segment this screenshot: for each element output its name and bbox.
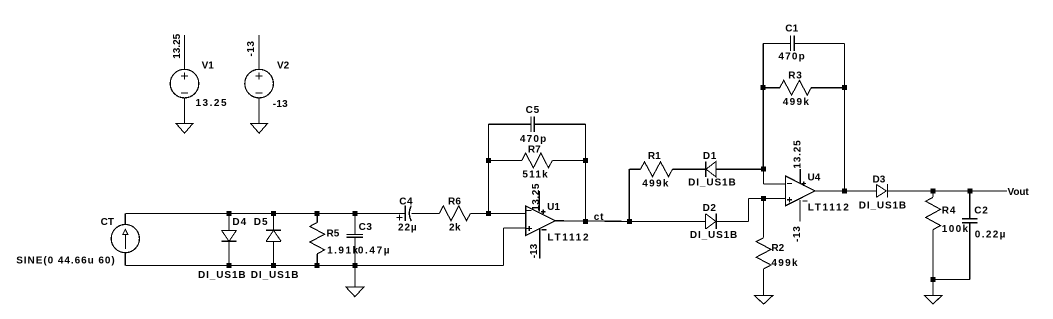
label R2	[771, 243, 784, 254]
wire ground stub right	[932, 280, 934, 296]
wire U4 inv from D1	[763, 169, 785, 184]
junction R7 left	[486, 158, 491, 163]
junction R7 right	[583, 158, 588, 163]
svg-text:R5: R5	[327, 229, 340, 240]
svg-text:-13: -13	[246, 41, 257, 57]
wire feedback left leg U4	[762, 43, 764, 169]
wire CT bottom stub	[124, 253, 126, 266]
resistor R2	[756, 199, 771, 296]
junction D4 bottom	[227, 263, 232, 268]
resistor R1	[641, 162, 706, 177]
diode D3	[876, 184, 1007, 197]
diode D5	[266, 213, 281, 265]
junction R5 top	[315, 211, 320, 216]
label D3	[873, 175, 886, 186]
value 13.25 of V1	[196, 98, 229, 109]
capacitor C3	[347, 213, 363, 265]
svg-text:R1: R1	[648, 151, 661, 162]
wire C5 top left	[488, 123, 531, 125]
svg-text:SINE(0 44.66u 60): SINE(0 44.66u 60)	[16, 255, 116, 266]
voltage source V1	[170, 35, 199, 124]
label R4	[942, 205, 956, 216]
svg-text:499k: 499k	[771, 258, 798, 269]
junction C2 top	[967, 188, 972, 193]
net label 13.25 at V1 pin	[172, 33, 183, 58]
junction U1 output feedback	[583, 219, 588, 224]
ground at C3	[346, 287, 364, 297]
junction C3 top	[352, 211, 357, 216]
wire ct up to R1	[629, 169, 640, 221]
junction R4 top	[931, 188, 936, 193]
wire feedback right leg U1	[584, 124, 586, 221]
label C5	[526, 105, 540, 116]
wire CT top stub	[124, 213, 126, 224]
svg-text:13.25: 13.25	[172, 33, 183, 58]
wire feedback right leg U4	[844, 43, 846, 191]
value -13 of V2	[273, 99, 288, 110]
svg-text:22µ: 22µ	[398, 222, 418, 233]
wire U1 output	[555, 220, 629, 223]
label C3	[359, 222, 373, 233]
voltage source V2	[245, 35, 274, 124]
value 100k of R4	[942, 224, 970, 235]
ground at V2	[251, 124, 268, 134]
svg-text:2k: 2k	[449, 222, 461, 233]
resistor R3	[763, 80, 844, 95]
value 0.22u of C2	[975, 229, 1007, 240]
svg-text:DI_US1B: DI_US1B	[690, 230, 738, 241]
svg-text:0.22µ: 0.22µ	[975, 229, 1007, 240]
svg-text:LT1112: LT1112	[547, 232, 590, 243]
junction D5 top	[271, 211, 276, 216]
wire bottom right rail	[933, 279, 970, 281]
value 499k of R1	[642, 179, 669, 190]
svg-text:R6: R6	[448, 196, 461, 207]
svg-text:DI_US1B: DI_US1B	[198, 270, 247, 281]
net label -13 at V2 pin	[246, 41, 257, 57]
svg-text:R2: R2	[771, 243, 784, 254]
label C4	[399, 196, 413, 207]
resistor R4	[926, 191, 941, 280]
label D2	[703, 203, 717, 214]
junction D4 top	[227, 211, 232, 216]
current source CT	[111, 225, 139, 253]
op-amp U4	[786, 169, 816, 222]
label D4	[232, 217, 247, 228]
label U4	[808, 172, 821, 183]
value DI_US1B of D3	[859, 200, 907, 211]
net label Vout	[1008, 187, 1030, 198]
value LT1112 of U1	[547, 232, 590, 243]
svg-text:0.47µ: 0.47µ	[358, 245, 391, 256]
resistor R7	[488, 153, 585, 168]
net label 13.25 at U1 V+ pin	[531, 183, 542, 211]
label U1	[547, 202, 560, 213]
capacitor C1	[790, 36, 794, 51]
junction ct	[627, 219, 632, 224]
diode D1	[706, 161, 764, 177]
capacitor C5	[531, 116, 534, 132]
svg-text:V2: V2	[277, 61, 290, 72]
value 499k of R3	[783, 97, 810, 108]
label R5	[327, 229, 340, 240]
svg-text:13.25: 13.25	[196, 98, 229, 109]
junction bottom right ground	[931, 277, 936, 282]
wire U1 noninv input	[504, 228, 526, 266]
svg-text:C1: C1	[785, 23, 798, 34]
ground at V1	[176, 124, 193, 134]
value DI_US1B of D2	[690, 230, 738, 241]
svg-text:C3: C3	[359, 222, 373, 233]
svg-text:R4: R4	[942, 205, 956, 216]
value SINE(0 44.66u 60) of CT	[16, 255, 116, 266]
wire C1 top right	[794, 42, 844, 44]
value 22u of C4	[398, 222, 418, 233]
label R1	[648, 151, 661, 162]
junction R5 bottom	[315, 263, 320, 268]
svg-text:D3: D3	[873, 175, 886, 186]
label R7	[528, 145, 541, 156]
svg-text:511k: 511k	[522, 169, 549, 180]
svg-text:C4: C4	[399, 196, 413, 207]
junction D5 bottom	[271, 263, 276, 268]
net label 13.25 at U4 V+ pin	[792, 140, 803, 169]
svg-text:-13: -13	[273, 99, 288, 110]
value 470p of C5	[520, 134, 548, 145]
wire bottom rail	[125, 265, 503, 267]
value DI_US1B of D5	[251, 270, 300, 281]
capacitor C2	[962, 191, 978, 280]
svg-text:499k: 499k	[642, 179, 669, 190]
value LT1112 of U4	[808, 202, 851, 213]
svg-text:D4: D4	[232, 217, 247, 228]
svg-text:13.25: 13.25	[531, 183, 542, 211]
label V1	[202, 61, 215, 72]
value 470p of C1	[778, 51, 806, 62]
junction feedback left at U1 input	[486, 211, 491, 216]
node ct	[594, 212, 605, 223]
svg-text:R7: R7	[528, 145, 541, 156]
svg-text:U4: U4	[808, 172, 821, 183]
svg-text:C2: C2	[974, 205, 988, 216]
junction D1 feedback	[761, 167, 766, 172]
junction U4 noninv R2	[761, 196, 766, 201]
label D1	[703, 151, 717, 162]
svg-text:DI_US1B: DI_US1B	[251, 270, 300, 281]
svg-text:13.25: 13.25	[792, 140, 803, 169]
svg-text:470p: 470p	[520, 134, 548, 145]
resistor R5	[310, 213, 325, 265]
svg-text:DI_US1B: DI_US1B	[688, 178, 737, 189]
junction U4 output feedback	[842, 188, 847, 193]
diode D4	[222, 213, 237, 265]
resistor R6	[439, 206, 525, 221]
wire C5 top right	[534, 123, 585, 125]
svg-text:-13: -13	[792, 225, 803, 242]
svg-text:D1: D1	[703, 151, 717, 162]
svg-text:V1: V1	[202, 61, 215, 72]
diode D2	[706, 214, 749, 229]
svg-text:-13: -13	[529, 243, 540, 258]
op-amp U1	[526, 191, 555, 258]
value 511k of R7	[522, 169, 549, 180]
ground at R4 C2	[924, 295, 942, 304]
wire D2 up to U4 noninv	[748, 199, 785, 222]
wire feedback left leg U1	[487, 124, 489, 213]
junction C3 bottom	[352, 263, 357, 268]
label V2	[277, 61, 290, 72]
value 499k of R2	[771, 258, 798, 269]
junction R3 right	[842, 85, 847, 90]
svg-text:D2: D2	[703, 203, 717, 214]
value 1.91k of R5	[327, 245, 360, 256]
svg-text:CT: CT	[101, 217, 115, 228]
svg-text:D5: D5	[254, 217, 269, 228]
value DI_US1B of D1	[688, 178, 737, 189]
value 2k of R6	[449, 222, 461, 233]
capacitor C4	[397, 206, 440, 222]
junction R3 left	[761, 85, 766, 90]
net label -13 at U4 V- pin	[792, 225, 803, 242]
svg-text:100k: 100k	[942, 224, 970, 235]
svg-text:C5: C5	[526, 105, 540, 116]
wire D2 row	[629, 220, 705, 222]
label D5	[254, 217, 269, 228]
label R6	[448, 196, 461, 207]
value 0.47u of C3	[358, 245, 391, 256]
label C2	[974, 205, 988, 216]
svg-text:R3: R3	[788, 70, 802, 81]
wire top rail	[125, 212, 405, 214]
svg-text:DI_US1B: DI_US1B	[859, 200, 907, 211]
svg-text:499k: 499k	[783, 97, 810, 108]
wire C1 top left	[763, 42, 790, 44]
net label -13 at U1 V- pin	[529, 243, 540, 258]
wire C3 ground stub	[354, 266, 356, 287]
wire U4 output	[815, 190, 876, 192]
svg-text:Vout: Vout	[1008, 187, 1030, 198]
svg-text:ct: ct	[594, 212, 605, 223]
label CT	[101, 217, 115, 228]
svg-text:U1: U1	[547, 202, 560, 213]
value DI_US1B of D4	[198, 270, 247, 281]
svg-text:LT1112: LT1112	[808, 202, 851, 213]
ground at R2	[754, 296, 772, 305]
svg-text:470p: 470p	[778, 51, 806, 62]
label R3	[788, 70, 802, 81]
label C1	[785, 23, 798, 34]
